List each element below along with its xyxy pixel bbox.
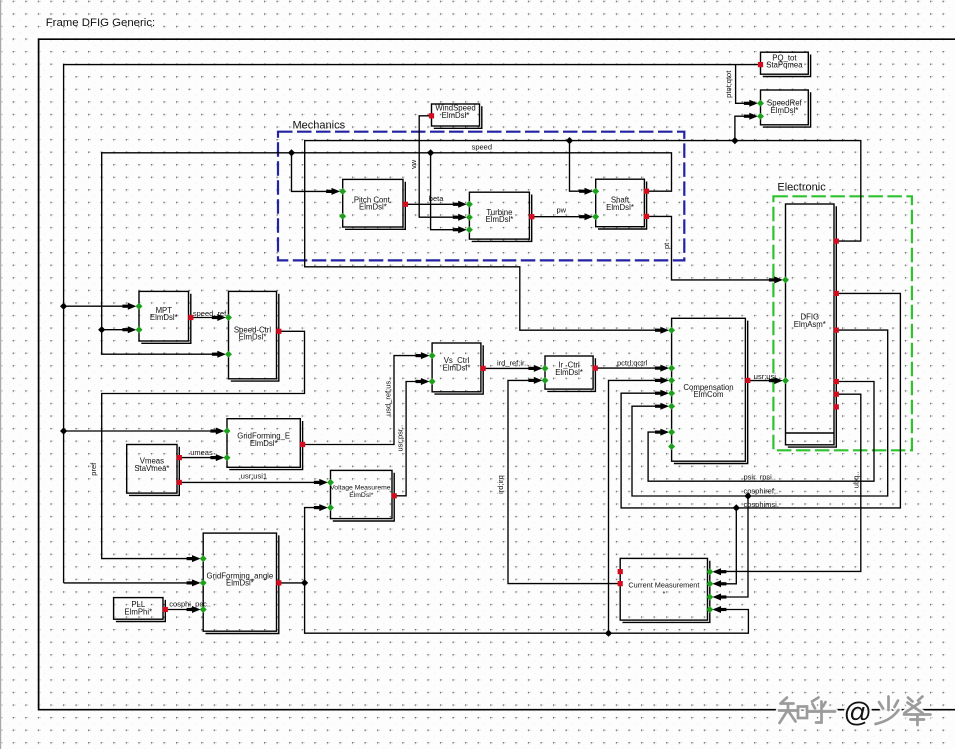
wire umeas Vmeas out1 to GridForming_E in2: [179, 457, 222, 459]
wire pctrl;qctrl Ir_Ctrl out to Compensation in: [595, 367, 667, 369]
svg-text:psir_rpsi..: psir_rpsi..: [744, 472, 777, 481]
wire usr;usi Compensation out to DFIG in2: [748, 380, 781, 382]
svg-text:ElmDsl*: ElmDsl*: [150, 313, 178, 322]
wire beta Pitch out to Turbine in1: [405, 203, 465, 205]
wire branch down into SpeedRef in1: [736, 65, 756, 104]
arrowheads into input ports: [744, 100, 758, 107]
wire speed_ref MPT out to Speed-Ctrl in1: [191, 317, 224, 319]
junction dots: [288, 149, 295, 156]
wire cosphi_pcc PLL out to GridForming_angle in3: [165, 609, 199, 611]
svg-text:speed: speed: [472, 143, 492, 152]
wire DFIG out1 speed loop to Compensation top input: [305, 141, 861, 331]
Mechanics dashed group box: [278, 120, 684, 261]
svg-text:usr;usi1: usr;usi1: [241, 472, 267, 481]
svg-text:beta: beta: [429, 194, 444, 203]
svg-text:StaVmea*: StaVmea*: [134, 464, 169, 473]
wire pref Speed-Ctrl out down-left to GridForming_angle in1: [102, 331, 305, 558]
svg-text:pt: pt: [662, 242, 671, 249]
svg-text:ElmDsl*: ElmDsl*: [359, 203, 387, 212]
svg-text:usr;usi: usr;usi: [754, 372, 776, 381]
block Vs_Ctrl ElmDsl*: [429, 343, 486, 394]
block Voltage Measurement ElmDsl*: [327, 470, 397, 521]
wire branch to Turbine in3: [431, 153, 465, 230]
wire GridForming_angle in2 from far-left vertical: [64, 582, 199, 584]
svg-text:ElmDsl*: ElmDsl*: [250, 439, 278, 448]
wire GridForming_angle out to junction: [279, 582, 305, 584]
wire ird_ref Vs_Ctrl out to Ir_Ctrl in1: [483, 367, 540, 369]
svg-text:cosphimsi.: cosphimsi.: [744, 500, 779, 509]
wire junction up to Voltage Measurement in2: [305, 508, 326, 583]
svg-text:ElmCom: ElmCom: [694, 390, 724, 399]
block SpeedRef ElmDsl*: [757, 90, 811, 127]
svg-text:ElmDsl*: ElmDsl*: [486, 215, 514, 224]
svg-text:Voltage Measureme.: Voltage Measureme.: [330, 485, 392, 492]
wire pw Turbine out to Shaft in2: [532, 216, 591, 218]
svg-text:Electronic: Electronic: [777, 182, 826, 194]
svg-text:usr;psr..: usr;psr..: [396, 425, 405, 452]
svg-text:cosphiref;.: cosphiref;.: [744, 486, 779, 495]
svg-text:ElmDsl*: ElmDsl*: [442, 111, 470, 120]
svg-text:ubq..: ubq..: [852, 472, 861, 489]
wire branch down to Current Measurement in3: [714, 496, 748, 597]
wire Voltage Measurement out up to Vs_Ctrl in2: [394, 382, 427, 496]
svg-text:ElmDsl*: ElmDsl*: [443, 363, 471, 372]
svg-text:vw: vw: [409, 159, 418, 169]
svg-text:usd_ref;us..: usd_ref;us..: [384, 377, 393, 416]
wire GridForming_E in1 from left vertical: [64, 430, 223, 432]
Electronic dashed group box: [773, 182, 912, 451]
wire up from angle net to Compensation in2: [609, 380, 668, 633]
wire branch down to Shaft in1: [570, 141, 592, 192]
wire MPT in1 from left vertical: [64, 305, 135, 307]
svg-text:Frame DFIG Generic:: Frame DFIG Generic:: [46, 17, 156, 29]
wire ird;irq Current Measurement out2 up to Ir_Ctrl in2: [508, 380, 620, 583]
wire cosphimsi DFIG out2 around to Compensation in3: [621, 293, 900, 508]
block Compensation ElmCom: [668, 318, 750, 463]
wire cosphiref DFIG out3 around to Compensation in4: [632, 330, 888, 496]
block Current Measurement: [618, 558, 714, 622]
wire DFIG out5 down to Current Measurement in1: [714, 394, 861, 571]
block Pitch Cont. ElmDsl*: [339, 179, 408, 229]
svg-text:ird_ref;ir..: ird_ref;ir..: [497, 358, 528, 367]
svg-text:ElmDsl*: ElmDsl*: [555, 368, 583, 377]
block GridForming_angle ElmDsl*: [200, 533, 282, 633]
wire junction down-right to Current Measurement in4: [305, 583, 749, 633]
svg-text:pref: pref: [89, 462, 98, 476]
svg-text:ElmDsl*: ElmDsl*: [226, 579, 254, 588]
svg-text:StaPqmea: StaPqmea: [766, 61, 803, 70]
svg-text:ElmDsl*: ElmDsl*: [606, 203, 634, 212]
block MPT ElmDsl*: [136, 291, 194, 343]
svg-text:pw: pw: [557, 205, 567, 214]
wire ptot;qtot from PQ_tot left across to far-left vertical: [64, 65, 758, 583]
block GridForming_E ElmDsl*: [224, 419, 306, 470]
svg-text:umeas: umeas: [190, 448, 213, 457]
svg-text:@: @: [844, 697, 872, 728]
svg-text:ptot;qtot: ptot;qtot: [724, 70, 733, 98]
svg-text:*: *: [662, 589, 665, 598]
block Turbine ElmDsl*: [466, 192, 535, 241]
wire MPT in2 branch: [102, 329, 135, 331]
wire speed net from Shaft out1 looping left to Speed-Ctrl in2: [102, 153, 672, 354]
block WindSpeed ElmDsl*: [429, 104, 482, 129]
watermark 知乎 @少爷 (drawn strokes, gray with white halo): [779, 697, 931, 726]
block PLL ElmPhi*: [114, 598, 168, 622]
block Shaft ElmDsl*: [592, 179, 649, 229]
svg-text:ElmPhi*: ElmPhi*: [124, 608, 152, 617]
svg-text:cosphi_pcc..: cosphi_pcc..: [169, 600, 211, 609]
wire psir DFIG out4 around to Compensation in5: [648, 382, 874, 482]
svg-text:ElmDsl*: ElmDsl*: [771, 106, 799, 115]
svg-text:ElmAsm*: ElmAsm*: [794, 320, 826, 329]
wire branch to Pitch Cont in1: [292, 153, 339, 192]
wire pt Shaft out2 to DFIG in1: [647, 216, 782, 280]
block Vmeas StaVmea*: [127, 445, 182, 496]
block PQ_tot StaPqmea: [758, 52, 811, 76]
svg-text:ird;irq: ird;irq: [496, 475, 505, 494]
block Ir_Ctrl ElmDsl*: [542, 356, 598, 391]
wire usr;usi1 Vmeas out2 to Voltage Measurement in1: [179, 481, 326, 483]
wire branch down to Current Measurement in2: [714, 508, 736, 584]
block Speed-Ctrl ElmDsl*: [225, 291, 281, 381]
svg-text:speed_ref: speed_ref: [193, 309, 227, 318]
block DFIG ElmAsm*: [782, 204, 839, 447]
wire branch up to SpeedRef in2: [735, 116, 756, 140]
wire vw WindSpeed down to Turbine in2: [419, 116, 465, 217]
left window border line: [0, 0, 1, 749]
svg-text:ElmDsl*: ElmDsl*: [239, 333, 267, 342]
svg-text:pctrl;qctrl: pctrl;qctrl: [617, 358, 648, 367]
svg-text:ElmDsl*: ElmDsl*: [349, 492, 374, 499]
svg-text:Mechanics: Mechanics: [293, 120, 346, 132]
wire usd_ref GridForming_E out up to Vs_Ctrl in1: [303, 356, 428, 445]
